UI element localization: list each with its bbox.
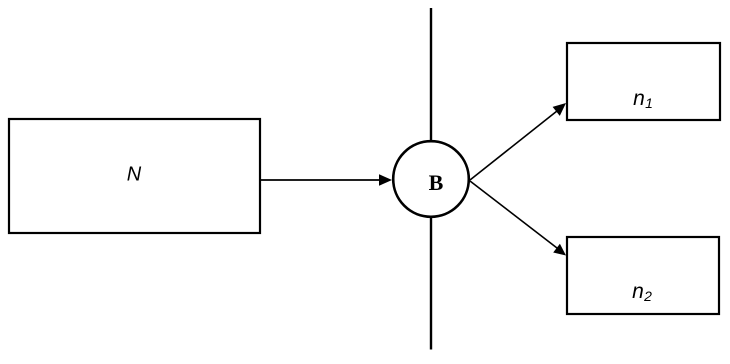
- block N: [9, 119, 260, 233]
- svg-text:N: N: [127, 164, 142, 186]
- svg-text:B: B: [429, 170, 444, 195]
- svg-text:2: 2: [643, 288, 652, 304]
- block n2: [567, 237, 719, 314]
- wire: arrow N to B: [260, 179, 381, 181]
- node B circle: [393, 141, 469, 217]
- wire: arrow B to n1: [470, 111, 557, 180]
- wire: vertical line through B: [430, 8, 432, 350]
- wire: arrow B to n2: [470, 181, 557, 248]
- svg-text:n: n: [632, 280, 644, 303]
- svg-text:n: n: [633, 87, 645, 110]
- svg-text:1: 1: [645, 95, 653, 111]
- block n1: [567, 43, 720, 120]
